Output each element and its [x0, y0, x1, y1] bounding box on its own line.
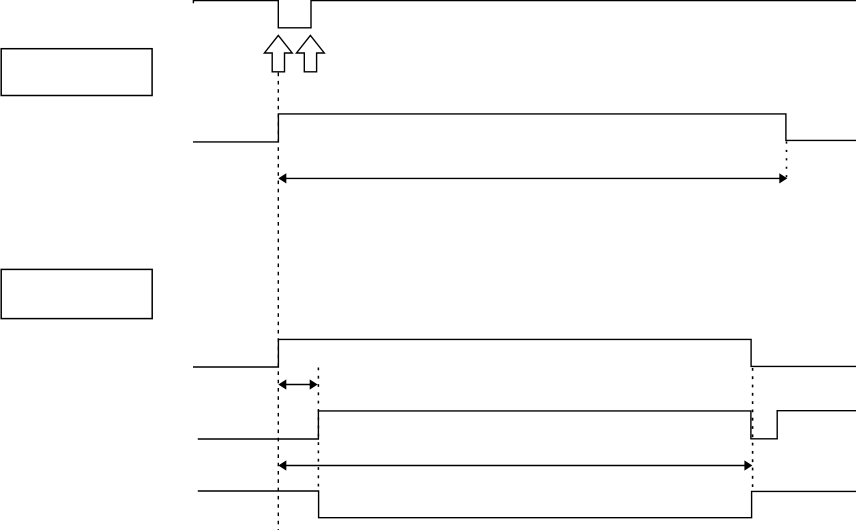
dotted reference line at x=318 — [317, 368, 319, 492]
timing arrow T1 (W2 pulse width) — [278, 173, 787, 183]
block arrow up A2 — [297, 35, 325, 71]
clock waveform W1 with negative pulse — [193, 1, 856, 28]
dotted reference line at W2 falling edge x=786 — [786, 142, 788, 181]
timing arrow T2 (delay between edges) — [278, 379, 317, 389]
dashed reference line at x=278 — [277, 73, 279, 530]
timing arrow T3 — [278, 460, 752, 470]
signal waveform W2 — [193, 114, 856, 142]
signal waveform W4 with notch — [198, 411, 856, 439]
label box B1 — [1, 49, 152, 96]
label box B2 — [1, 269, 152, 318]
signal waveform W3 — [193, 339, 856, 367]
block arrow up A1 — [264, 35, 292, 71]
signal waveform W5 — [198, 491, 856, 518]
dotted reference line at x=752 — [752, 368, 754, 489]
